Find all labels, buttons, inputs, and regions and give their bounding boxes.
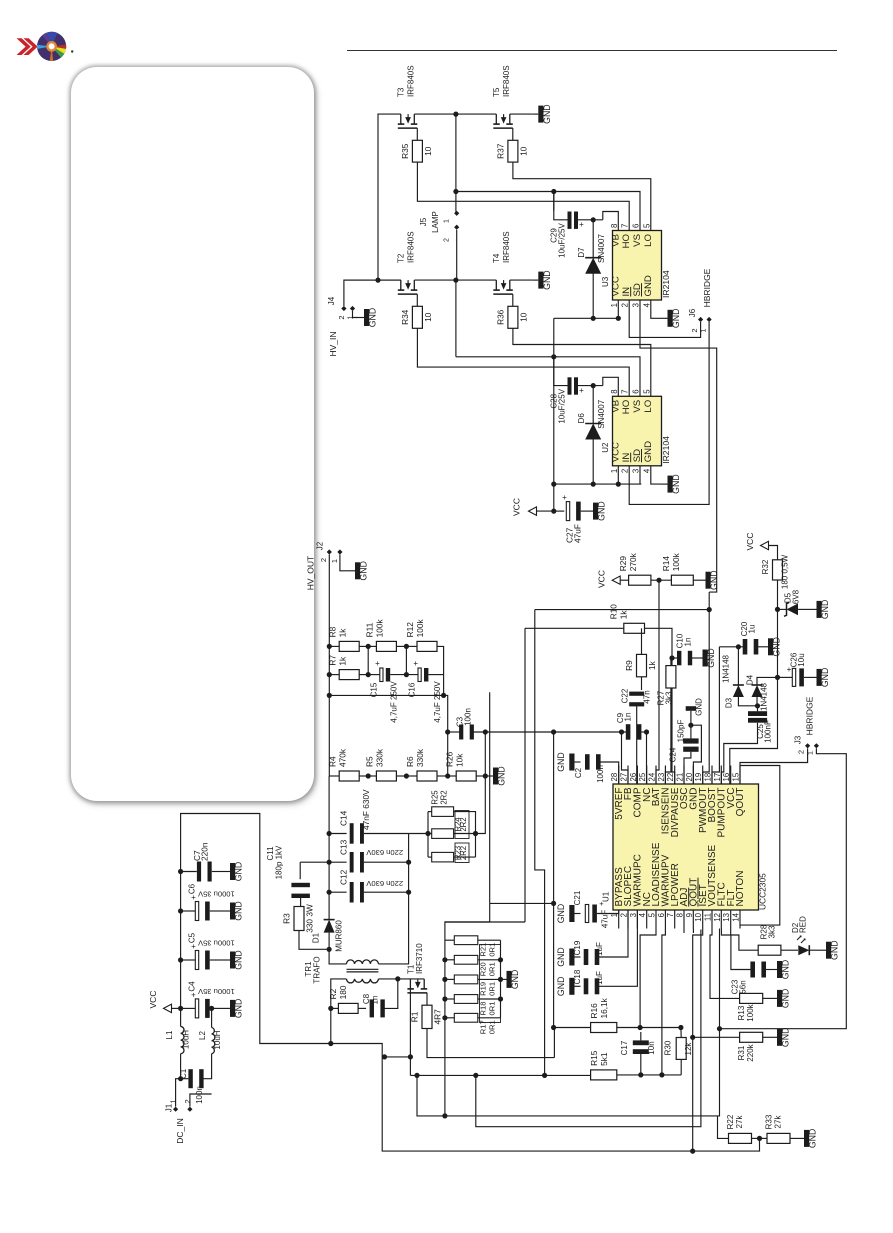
resistor R26 10k	[456, 771, 476, 781]
resistor R12 100k	[417, 641, 437, 651]
svg-text:GND: GND	[556, 904, 566, 924]
svg-text:8: 8	[676, 913, 685, 917]
svg-text:13: 13	[722, 913, 731, 922]
resistor R8 1k	[339, 641, 359, 651]
capacitor C11 180p 1kV	[291, 883, 310, 887]
svg-text:5k1: 5k1	[599, 1052, 609, 1066]
resistor R22 27k	[729, 1133, 752, 1143]
wire	[367, 646, 369, 674]
capacitor C1	[188, 1069, 192, 1088]
svg-text:R19: R19	[479, 982, 488, 996]
svg-text:+: +	[599, 899, 604, 908]
wire R10 net	[525, 627, 624, 629]
svg-text:1: 1	[169, 1099, 178, 1103]
transistor T4 IRF840S	[495, 280, 497, 290]
svg-text:15: 15	[732, 772, 741, 781]
ground	[487, 775, 493, 777]
svg-text:R10: R10	[609, 604, 619, 620]
svg-text:+: +	[375, 659, 380, 668]
resistor R2 180	[331, 1007, 339, 1009]
svg-text:J5: J5	[419, 217, 428, 226]
svg-text:R16: R16	[589, 1003, 599, 1019]
IC U1 UCC2305	[613, 784, 759, 910]
svg-text:GND: GND	[706, 648, 716, 668]
wire VCC rail	[554, 317, 619, 319]
svg-text:3: 3	[629, 913, 638, 917]
capacitor C22 47n	[641, 677, 643, 690]
svg-text:6V8: 6V8	[792, 589, 801, 604]
resistor R9 1k	[641, 628, 643, 654]
wire trio to GND rail	[476, 776, 486, 834]
svg-text:330k: 330k	[415, 748, 425, 767]
svg-text:R30: R30	[664, 1040, 673, 1055]
svg-text:IRF840S: IRF840S	[407, 65, 416, 97]
svg-text:R37: R37	[495, 143, 505, 159]
wire T1 source return	[385, 1056, 411, 1058]
svg-text:R11: R11	[365, 622, 375, 637]
svg-text:27k: 27k	[773, 1115, 782, 1129]
svg-text:2: 2	[444, 238, 451, 242]
svg-text:R6: R6	[405, 756, 415, 767]
svg-text:150pF: 150pF	[677, 720, 686, 743]
svg-text:100k: 100k	[746, 1003, 755, 1021]
svg-text:7: 7	[621, 224, 630, 228]
svg-text:47nF 630V: 47nF 630V	[361, 789, 371, 830]
svg-text:R8: R8	[328, 626, 338, 637]
svg-text:330k: 330k	[375, 748, 385, 767]
ground	[790, 1137, 798, 1139]
svg-text:1n: 1n	[684, 638, 693, 647]
wire VCC rail	[554, 483, 642, 485]
svg-text:LO: LO	[643, 234, 654, 247]
connector J4 HV_IN	[341, 306, 346, 311]
svg-text:1: 1	[444, 219, 451, 223]
svg-text:GND: GND	[820, 600, 830, 620]
resistor R32 180 0,5W	[773, 560, 783, 580]
wire	[181, 1054, 189, 1079]
wire C3 feed from divider rail	[329, 695, 447, 732]
svg-text:R34: R34	[400, 309, 410, 325]
svg-text:19: 19	[694, 773, 703, 782]
svg-text:3: 3	[632, 469, 641, 473]
IC U3 IR2104	[613, 231, 662, 301]
transistor T1 IRF3710	[409, 979, 411, 989]
svg-text:RED: RED	[799, 916, 808, 933]
svg-text:10: 10	[423, 146, 433, 156]
svg-text:LAMP: LAMP	[431, 211, 440, 233]
svg-text:100k: 100k	[375, 619, 385, 638]
svg-text:8: 8	[610, 389, 619, 393]
svg-text:27: 27	[620, 773, 629, 782]
resistor R7 1k	[339, 670, 359, 680]
svg-text:GND: GND	[671, 474, 681, 494]
wire TR1 primary right to HV trunk	[378, 834, 408, 964]
svg-text:10uH: 10uH	[182, 1030, 191, 1049]
svg-text:VCC: VCC	[597, 570, 607, 588]
ground pin4	[651, 300, 662, 318]
svg-text:IRF3710: IRF3710	[415, 943, 424, 974]
svg-text:GND: GND	[234, 950, 244, 970]
wire R22 drop	[718, 1116, 729, 1139]
svg-text:+: +	[413, 659, 418, 668]
logo chevrons	[17, 38, 31, 55]
svg-text:47uF: 47uF	[573, 524, 583, 543]
svg-text:J3: J3	[794, 735, 803, 744]
wire C29 tap	[553, 192, 555, 211]
wire QOUT-bar/ISET long lines	[692, 929, 694, 934]
resistor R5 330k	[376, 771, 396, 781]
wire	[752, 1137, 768, 1139]
svg-text:HV_OUT: HV_OUT	[306, 556, 316, 590]
capacitor C2 100n	[575, 761, 581, 763]
svg-text:HV_IN: HV_IN	[328, 331, 338, 356]
svg-text:22: 22	[666, 773, 675, 782]
svg-text:GND: GND	[830, 940, 840, 960]
svg-text:100n: 100n	[596, 765, 605, 783]
svg-text:D6: D6	[577, 413, 586, 424]
svg-text:UCC2305: UCC2305	[758, 873, 768, 910]
wire J3 pin1 HBRIDGE down	[720, 748, 847, 1028]
header rule	[347, 50, 837, 51]
wire	[344, 280, 401, 306]
wire	[427, 1029, 554, 1058]
zener D5 6V8	[778, 608, 787, 610]
wire	[622, 732, 629, 784]
svg-text:8: 8	[610, 224, 619, 228]
svg-text:220n 630V: 220n 630V	[365, 879, 403, 888]
svg-text:GND: GND	[781, 1028, 791, 1048]
capacitor C19 1uF	[575, 956, 581, 958]
wire LO line U3	[513, 162, 651, 230]
wire R22/R33 junction down	[693, 1138, 760, 1151]
svg-text:10u: 10u	[797, 653, 806, 666]
transistor T5 IRF840S	[495, 114, 497, 124]
resistor R28 3k3	[731, 929, 759, 951]
svg-text:0R1: 0R1	[488, 962, 497, 976]
svg-text:R12: R12	[405, 622, 415, 638]
inductor L1	[181, 1027, 184, 1054]
resistor R13 100k	[710, 929, 740, 999]
svg-text:QOUT: QOUT	[735, 788, 746, 817]
svg-text:220n: 220n	[199, 842, 209, 861]
svg-text:10: 10	[694, 912, 703, 921]
svg-text:4,7uF 250V: 4,7uF 250V	[390, 681, 399, 723]
svg-text:NOTON: NOTON	[735, 871, 746, 907]
svg-text:2: 2	[621, 469, 630, 473]
wire	[670, 658, 672, 666]
capacitor C17 10n	[633, 1040, 649, 1045]
wire + ground	[340, 555, 349, 571]
svg-text:1n: 1n	[371, 996, 380, 1005]
svg-text:TRAFO: TRAFO	[312, 956, 321, 983]
connector J2 HV_OUT	[327, 549, 332, 554]
wire	[456, 230, 458, 280]
wire	[180, 872, 182, 1027]
svg-text:J4: J4	[327, 296, 336, 305]
svg-text:R18: R18	[479, 1002, 488, 1016]
svg-text:HO: HO	[621, 234, 632, 248]
resistor R15 5k1	[591, 1070, 617, 1080]
resistor R34 10 (gate T2)	[416, 294, 418, 306]
svg-text:10uH: 10uH	[213, 1030, 222, 1049]
diode D6 SN4007	[592, 386, 594, 424]
wire R29/R14 to pin 24	[656, 580, 659, 784]
svg-text:0R1: 0R1	[488, 1002, 497, 1016]
svg-text:VB: VB	[610, 400, 621, 413]
wire	[636, 704, 638, 784]
capacitor C23 56n	[721, 929, 751, 970]
capacitor C5 1000u 35V	[178, 957, 183, 962]
svg-text:100n: 100n	[464, 708, 473, 726]
resistor R6 330k	[417, 771, 437, 781]
svg-text:GND: GND	[497, 766, 507, 786]
svg-text:1k: 1k	[619, 610, 629, 620]
wire bank trunks	[444, 940, 446, 1018]
wire pin10 to lower loop	[476, 930, 701, 1127]
svg-text:C2: C2	[574, 767, 583, 778]
svg-text:R4: R4	[328, 756, 338, 767]
svg-text:14: 14	[732, 912, 741, 921]
svg-text:R29: R29	[618, 556, 628, 572]
wire C20 bus down to pin 18	[712, 647, 719, 784]
svg-text:R13: R13	[737, 1005, 746, 1020]
wire HV rail top	[378, 114, 401, 280]
svg-text:7: 7	[621, 389, 630, 393]
wire	[384, 979, 398, 1009]
svg-text:R22: R22	[726, 1114, 735, 1129]
svg-text:R35: R35	[400, 143, 410, 159]
svg-text:3k3: 3k3	[768, 925, 777, 938]
svg-text:SD: SD	[632, 283, 643, 296]
resistor R3 330 3W	[294, 907, 304, 931]
U1 pin numbers and stubs	[618, 766, 620, 785]
svg-text:R31: R31	[737, 1045, 746, 1060]
svg-text:IRF840S: IRF840S	[502, 231, 511, 263]
transistor T3 IRF840S	[400, 114, 402, 124]
wire QOUT-NOTON loop	[740, 766, 780, 926]
svg-text:1k: 1k	[338, 656, 348, 666]
svg-text:1k: 1k	[338, 628, 348, 638]
svg-text:470k: 470k	[338, 748, 348, 767]
svg-text:23: 23	[657, 773, 666, 782]
svg-text:24: 24	[648, 772, 657, 781]
svg-text:+: +	[562, 493, 567, 502]
wire HO line U3	[417, 162, 629, 230]
svg-text:GND: GND	[709, 570, 719, 590]
svg-text:R25: R25	[431, 790, 440, 805]
wire SLOPEC bank feed	[490, 902, 554, 904]
svg-text:28: 28	[610, 773, 619, 782]
resistor R4 470k	[339, 771, 359, 781]
wire	[414, 113, 456, 115]
wire bank top feed	[445, 922, 525, 940]
svg-text:R14: R14	[661, 556, 671, 572]
wire TR1 secondary	[331, 979, 347, 1044]
resistor R37 10 (gate T5)	[512, 128, 514, 140]
wire C3 left to R4 row	[447, 732, 449, 776]
svg-text:R7: R7	[328, 655, 338, 666]
svg-text:GND: GND	[234, 862, 244, 882]
svg-text:R1: R1	[410, 1011, 420, 1022]
resistor trio R23 R24 R25 2R2	[432, 807, 454, 817]
svg-text:10: 10	[518, 312, 528, 322]
svg-text:2R2: 2R2	[459, 846, 468, 860]
diode D7 SN4007	[592, 220, 594, 258]
svg-text:C22: C22	[621, 688, 630, 703]
svg-text:180: 180	[338, 985, 348, 999]
svg-text:C12: C12	[339, 869, 349, 885]
svg-text:SN4007: SN4007	[597, 399, 606, 428]
svg-text:17: 17	[713, 773, 722, 782]
svg-text:100k: 100k	[671, 552, 681, 571]
svg-text:C24: C24	[668, 747, 677, 762]
transformer TR1 TRAFO	[347, 960, 379, 964]
svg-text:U2: U2	[601, 442, 610, 453]
svg-text:D4: D4	[746, 674, 755, 685]
svg-text:10n: 10n	[647, 1041, 656, 1054]
wire R1 line	[553, 1028, 555, 1058]
wire VCC rail to TR1 section	[181, 814, 331, 1044]
wire U2 SD to rail	[639, 466, 641, 484]
svg-text:R20: R20	[479, 962, 488, 976]
svg-text:C6: C6	[188, 883, 197, 894]
svg-text:R32: R32	[761, 559, 770, 574]
capacitor C4 1000u 35V	[178, 1006, 183, 1011]
svg-text:MUR860: MUR860	[335, 920, 344, 952]
svg-text:R9: R9	[624, 660, 634, 671]
svg-text:R33: R33	[765, 1114, 774, 1129]
svg-text:4: 4	[642, 302, 651, 307]
svg-text:1N4148: 1N4148	[722, 654, 731, 683]
wire	[651, 579, 672, 581]
svg-text:R17: R17	[479, 1020, 488, 1034]
svg-text:10uF/25V: 10uF/25V	[557, 222, 566, 257]
svg-text:3: 3	[632, 303, 641, 307]
wire bootstrap	[554, 191, 568, 220]
wire pin12 bus Y1	[417, 929, 720, 1116]
diode D3 1N4148	[737, 647, 739, 685]
svg-text:5: 5	[642, 223, 651, 228]
svg-text:VCC: VCC	[610, 442, 621, 462]
wire trio	[428, 811, 432, 813]
connector J1 DC_IN	[173, 1107, 178, 1112]
wire HO line U2	[417, 328, 629, 396]
svg-text:D7: D7	[577, 247, 586, 258]
svg-text:DC_IN: DC_IN	[175, 1118, 185, 1144]
wire mid rail	[344, 279, 401, 281]
svg-text:180p 1kV: 180p 1kV	[275, 845, 284, 879]
bank label boxes	[480, 945, 501, 1023]
svg-text:C4: C4	[188, 981, 197, 992]
svg-text:T3: T3	[397, 87, 406, 97]
svg-text:C8: C8	[362, 993, 371, 1004]
inductor L2	[212, 1028, 215, 1054]
svg-text:10uF/25V: 10uF/25V	[557, 388, 566, 423]
svg-text:C5: C5	[188, 932, 197, 943]
wire	[299, 931, 329, 950]
svg-text:GND: GND	[820, 668, 830, 688]
LED D2 RED	[781, 949, 798, 951]
svg-text:1000u 35V: 1000u 35V	[197, 890, 235, 899]
svg-text:GND: GND	[234, 999, 244, 1019]
svg-text:GND: GND	[359, 561, 369, 581]
diode D4 1N4148	[752, 685, 763, 697]
svg-text:VCC: VCC	[512, 498, 522, 516]
svg-text:GND: GND	[643, 275, 654, 296]
svg-text:220n 630V: 220n 630V	[365, 848, 403, 857]
resistor R35 10 (gate T3)	[416, 128, 418, 140]
svg-text:GND: GND	[597, 501, 607, 521]
svg-text:GND: GND	[556, 947, 566, 967]
svg-text:R3: R3	[282, 913, 292, 924]
svg-text:2: 2	[183, 1099, 192, 1103]
svg-text:47uF: 47uF	[601, 910, 610, 928]
capacitor C14 47nF 630V	[329, 833, 346, 835]
svg-text:0R1: 0R1	[488, 1020, 497, 1034]
wire T1 gate to R1	[426, 993, 428, 1005]
svg-text:J1: J1	[165, 1103, 174, 1112]
svg-text:SD: SD	[632, 449, 643, 462]
wire	[617, 1027, 681, 1029]
svg-text:2: 2	[319, 558, 328, 562]
resistor R10 1k	[624, 623, 645, 633]
svg-text:GND: GND	[772, 637, 782, 657]
capacitor C15 4,7uF 250V	[380, 668, 383, 682]
capacitor C6 1000u 35V	[178, 908, 183, 913]
ground	[358, 317, 364, 319]
capacitor C10 1n	[672, 657, 678, 659]
svg-text:2: 2	[621, 303, 630, 307]
svg-text:J2: J2	[316, 541, 325, 550]
svg-text:C19: C19	[573, 940, 582, 955]
ground	[693, 579, 699, 581]
svg-text:VB: VB	[610, 234, 621, 247]
capacitor C16 4,7uF 250V	[418, 668, 421, 682]
capacitor C3 100n	[459, 725, 463, 740]
IC U2 IR2104	[613, 396, 662, 466]
diode D1 MUR860	[328, 776, 330, 920]
svg-text:GND: GND	[643, 441, 654, 462]
svg-text:4: 4	[638, 912, 647, 917]
svg-text:1000u 35V: 1000u 35V	[197, 939, 235, 948]
svg-text:C17: C17	[620, 1040, 629, 1055]
svg-text:56n: 56n	[739, 980, 748, 993]
svg-text:LO: LO	[643, 400, 654, 413]
svg-text:T5: T5	[492, 87, 501, 97]
svg-text:100nF: 100nF	[764, 720, 773, 743]
svg-text:L1: L1	[165, 1030, 174, 1039]
ground above C24	[686, 706, 696, 711]
svg-text:GND: GND	[234, 901, 244, 921]
svg-text:10: 10	[518, 146, 528, 156]
capacitor C25 100nF	[748, 711, 767, 716]
wire	[617, 1074, 681, 1076]
capacitor C20 1u	[719, 646, 738, 648]
wire VCC trunk	[553, 318, 555, 511]
wire + ground	[510, 279, 533, 281]
capacitor C29 10uF/25V	[568, 212, 572, 229]
logo disc	[37, 32, 66, 61]
svg-text:6: 6	[632, 224, 641, 228]
wire C24	[691, 725, 702, 784]
connector J3	[805, 743, 810, 748]
capacitor C7 220n	[178, 869, 183, 874]
svg-text:4,7uF 250V: 4,7uF 250V	[433, 681, 442, 723]
resistor R11 100k	[376, 641, 396, 651]
svg-text:D3: D3	[725, 697, 734, 708]
svg-text:10: 10	[423, 312, 433, 322]
svg-text:220k: 220k	[746, 1043, 755, 1061]
